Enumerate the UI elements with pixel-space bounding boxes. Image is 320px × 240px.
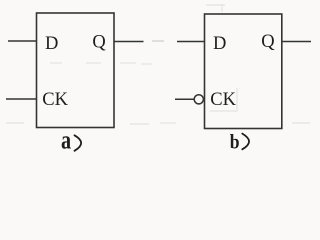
caption a)	[61, 126, 71, 155]
svg-text:CK: CK	[210, 90, 236, 110]
flip-flop U2 body	[205, 14, 282, 129]
wire D input (b)	[177, 41, 205, 43]
wire Q output (b)	[282, 41, 311, 43]
caption b)	[230, 131, 240, 154]
paper background	[0, 0, 319, 159]
wire CK input (a)	[6, 98, 37, 100]
wire Q output (a)	[114, 41, 143, 43]
wire D input (a)	[8, 40, 37, 42]
svg-text:a: a	[61, 126, 71, 155]
svg-text:Q: Q	[92, 32, 106, 52]
flip-flop U1 body	[37, 13, 115, 128]
wire CK input (b)	[175, 98, 194, 100]
svg-text:Q: Q	[261, 32, 275, 52]
faint bleed-through dashes	[6, 4, 310, 124]
faint noise dash between circuits	[152, 40, 164, 42]
svg-text:D: D	[213, 34, 226, 54]
svg-text:b: b	[230, 131, 240, 154]
inversion bubble on CK (b)	[194, 95, 203, 104]
svg-text:D: D	[45, 34, 58, 54]
svg-text:CK: CK	[42, 90, 68, 110]
